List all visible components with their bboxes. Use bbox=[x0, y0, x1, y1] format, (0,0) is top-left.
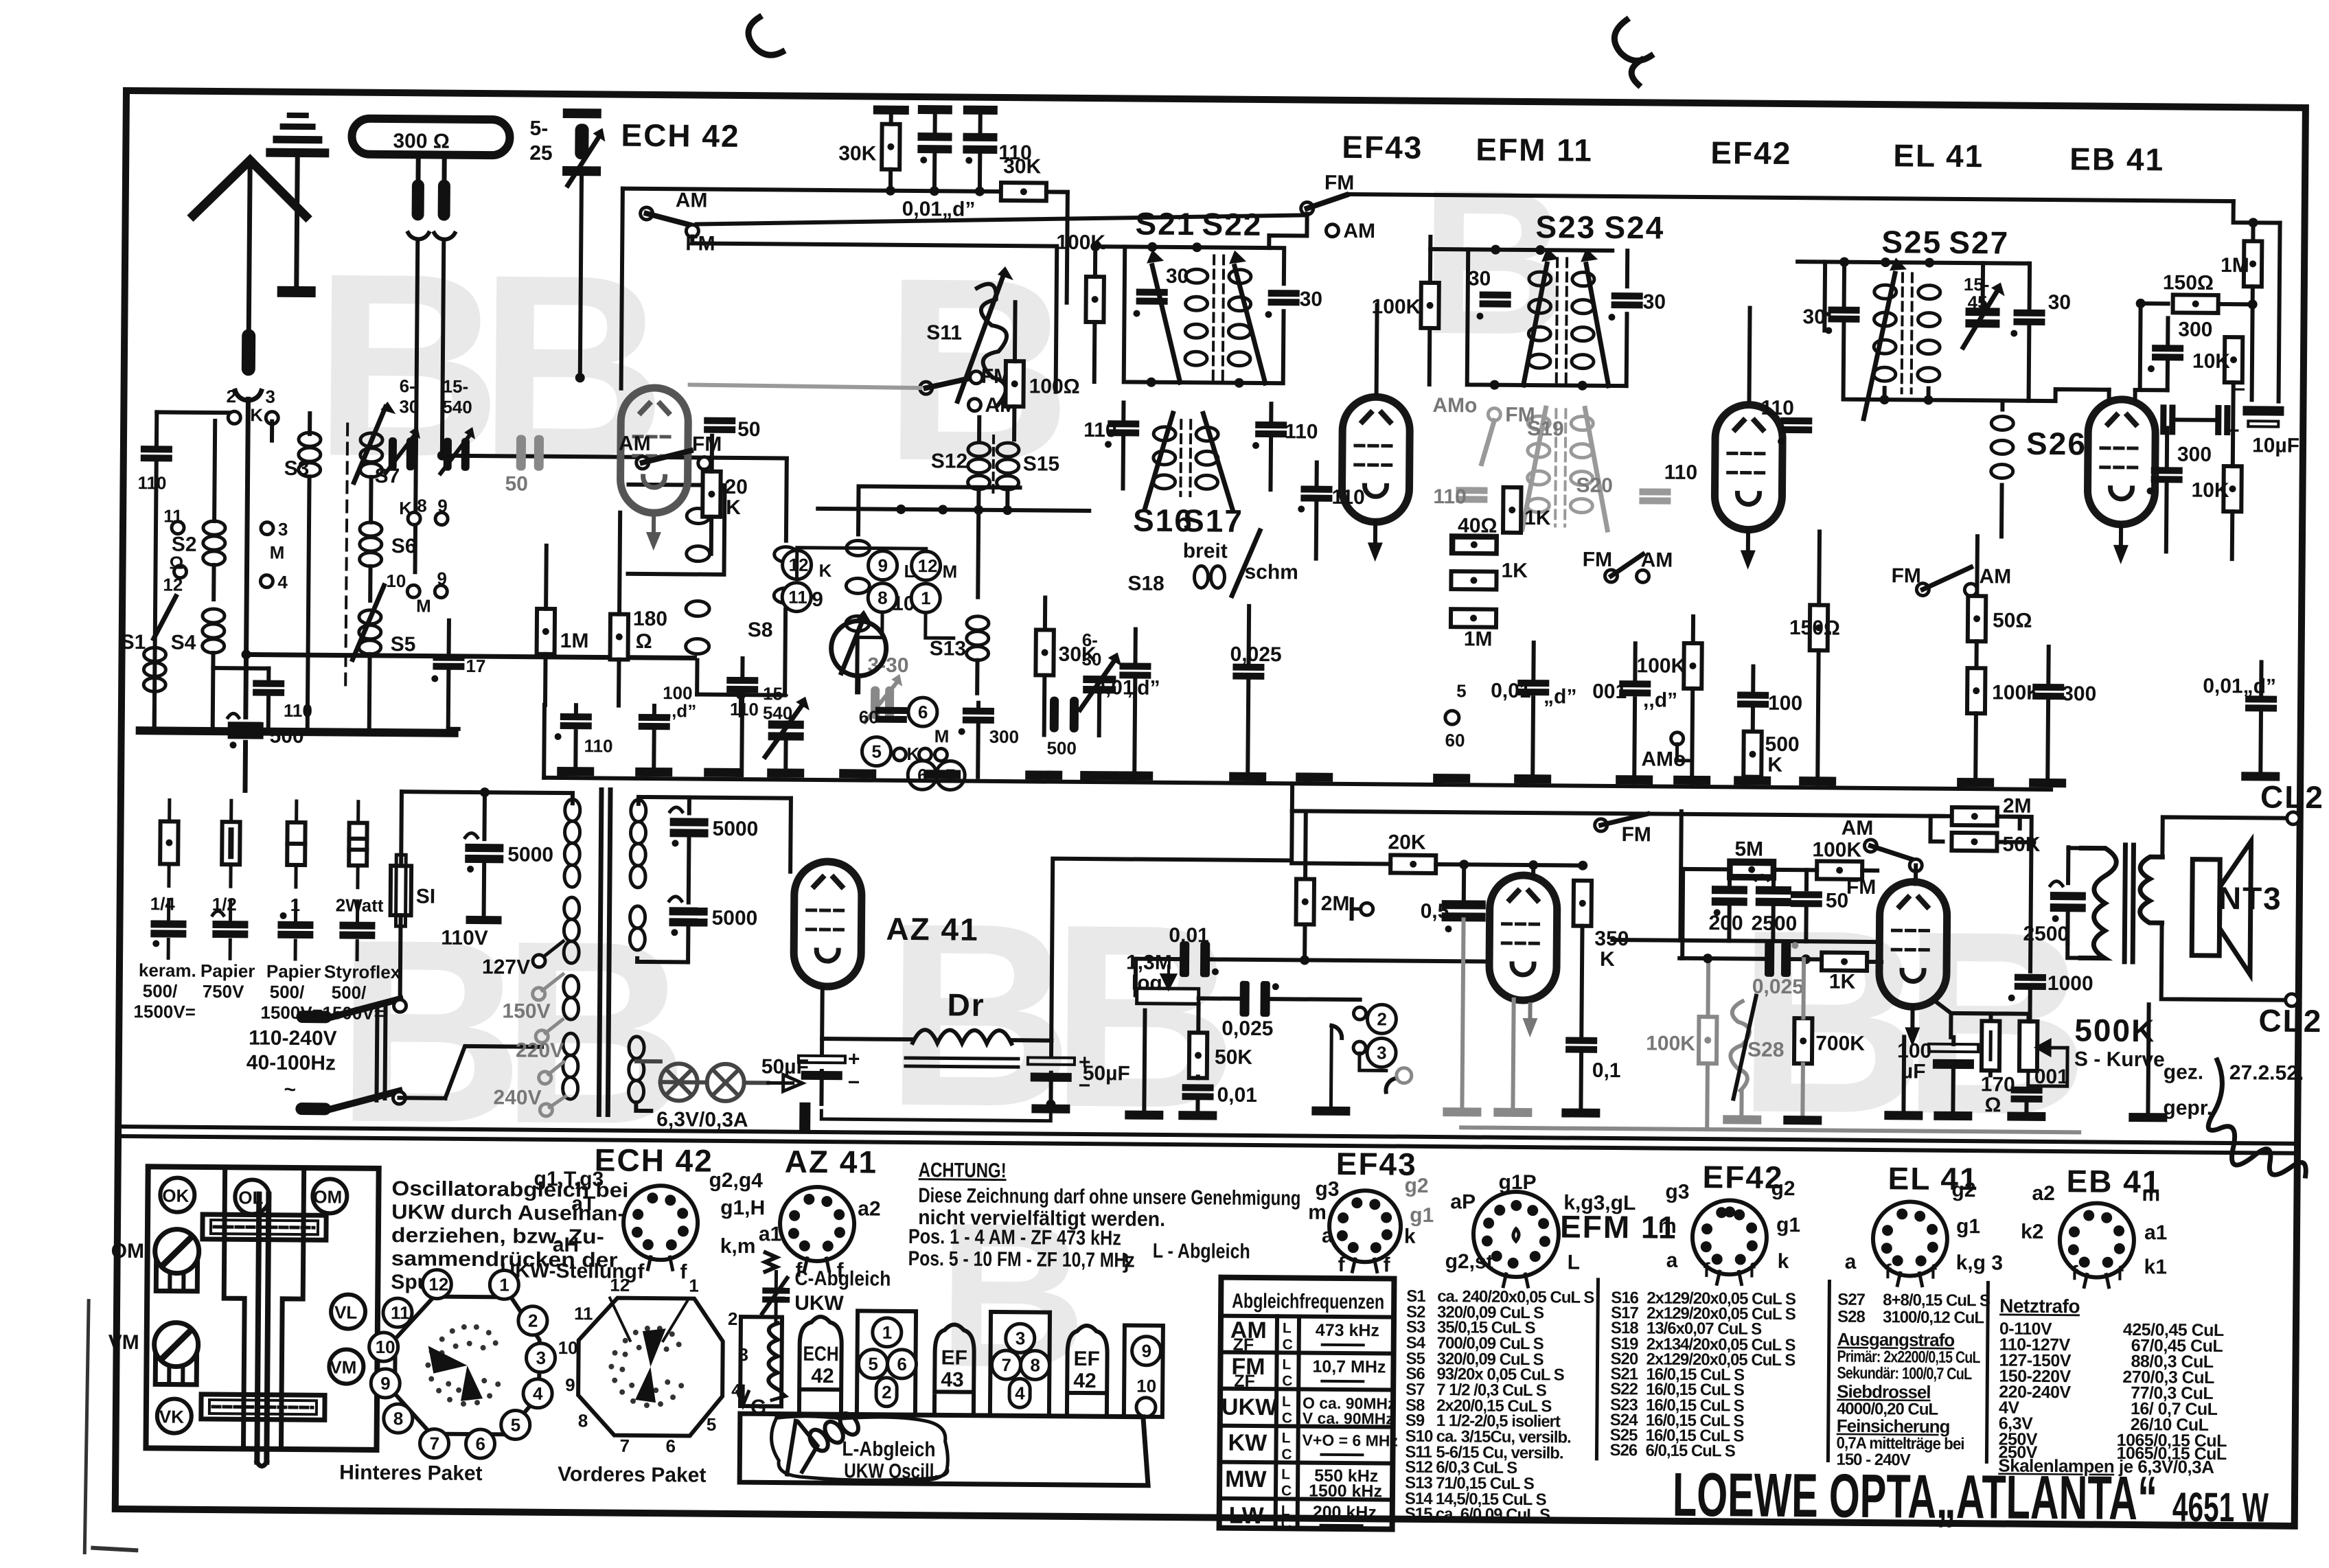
wire bus L1 bbox=[622, 189, 1068, 303]
capacitor 110 (input) bbox=[141, 446, 172, 461]
cap 110 left of EF43 bbox=[1300, 485, 1332, 501]
node bus joins bbox=[886, 186, 895, 196]
capacitor 110 bbox=[560, 713, 592, 729]
svg-text:473 kHz: 473 kHz bbox=[1316, 1321, 1379, 1341]
svg-text:17: 17 bbox=[466, 656, 485, 676]
svg-text:S27: S27 bbox=[1949, 224, 2009, 261]
capacitor 110 (S4 bottom) bbox=[253, 680, 284, 695]
svg-text:10K: 10K bbox=[2192, 350, 2231, 373]
circled 6 7 row bottom bbox=[908, 697, 937, 726]
svg-text:11: 11 bbox=[163, 505, 183, 526]
svg-text:C: C bbox=[1281, 1446, 1292, 1462]
svg-text:220V: 220V bbox=[516, 1039, 564, 1062]
tube EF42 bbox=[1714, 404, 1782, 530]
Abgleichfrequenzen table bbox=[1219, 1278, 1395, 1530]
svg-text:a1: a1 bbox=[759, 1223, 782, 1245]
svg-text:30: 30 bbox=[399, 396, 419, 417]
svg-text:S13: S13 bbox=[930, 637, 967, 660]
power transformer primary bbox=[562, 799, 580, 1099]
svg-text:50Ω: 50Ω bbox=[1993, 609, 2032, 632]
svg-text:f: f bbox=[637, 1260, 645, 1283]
resistor 350K bbox=[1574, 881, 1592, 926]
svg-text:200: 200 bbox=[1708, 912, 1743, 934]
svg-text:−: − bbox=[848, 1071, 860, 1094]
output transformer bbox=[2080, 844, 2162, 962]
svg-text:30: 30 bbox=[2048, 291, 2072, 314]
wire from 30K to right bbox=[1046, 190, 1068, 194]
svg-text:3: 3 bbox=[265, 387, 275, 407]
svg-text:0,5: 0,5 bbox=[1421, 900, 1449, 923]
svg-text:f: f bbox=[1383, 1254, 1390, 1276]
svg-text:„d”: „d” bbox=[1127, 676, 1160, 699]
capacitor 100 d bbox=[639, 714, 670, 730]
svg-text:12: 12 bbox=[917, 555, 937, 576]
svg-text:FM: FM bbox=[1505, 404, 1535, 426]
resistor 500K vert bbox=[1743, 732, 1762, 777]
svg-text:Ω: Ω bbox=[169, 553, 183, 573]
legend cap keram bbox=[167, 900, 170, 919]
svg-text:11: 11 bbox=[391, 1302, 410, 1323]
svg-text:60: 60 bbox=[1445, 730, 1465, 750]
svg-text:12: 12 bbox=[610, 1275, 630, 1295]
svg-text:S8: S8 bbox=[748, 619, 773, 641]
resistor 180 ohm bbox=[610, 614, 629, 660]
terminal VK bbox=[157, 1398, 192, 1433]
cap 0,01 d bbox=[1119, 662, 1151, 678]
terminals 10 M 9 bbox=[407, 585, 420, 597]
svg-text:10,7 MHz: 10,7 MHz bbox=[1312, 1357, 1386, 1377]
svg-text:S21: S21 bbox=[1135, 206, 1195, 242]
wire AM line to switch2 bbox=[696, 211, 1303, 229]
svg-text:001: 001 bbox=[1592, 680, 1627, 703]
transformer core bbox=[599, 789, 601, 1114]
svg-text:S26: S26 bbox=[1609, 1441, 1638, 1460]
resistor 10K b bbox=[2223, 466, 2242, 511]
S list column 3 bbox=[1836, 1291, 1990, 1471]
svg-text:AM: AM bbox=[1343, 220, 1375, 242]
resistor 150 ohm bbox=[1810, 605, 1828, 650]
pickup contacts 2 3 bbox=[1353, 1007, 1366, 1019]
svg-text:FM: FM bbox=[1583, 549, 1613, 571]
grounds audio row bbox=[1443, 1107, 1481, 1116]
terminal AM mid bbox=[968, 399, 980, 411]
svg-text:2500: 2500 bbox=[2023, 923, 2069, 946]
electrolytic 50uF b bbox=[1028, 1050, 1091, 1097]
B+ riser bbox=[1051, 809, 1292, 1043]
wire antenna down bbox=[243, 654, 249, 717]
antenna symbol bbox=[194, 160, 251, 216]
svg-text:NT3: NT3 bbox=[2218, 880, 2282, 916]
svg-text:4: 4 bbox=[1015, 1383, 1025, 1403]
svg-text:FM: FM bbox=[692, 433, 722, 455]
B+ FM line bbox=[1292, 811, 2020, 816]
cap 50 bbox=[1791, 891, 1822, 907]
svg-text:AM: AM bbox=[1842, 817, 1874, 840]
coil S26 bbox=[1991, 416, 2014, 478]
svg-text:S17: S17 bbox=[1183, 503, 1243, 539]
Netztrafo separator bbox=[1986, 1282, 1988, 1462]
svg-text:k: k bbox=[1778, 1250, 1789, 1273]
resistor 30K (screen) bbox=[882, 124, 900, 170]
svg-text:7: 7 bbox=[429, 1433, 439, 1454]
cap 001 coupling bbox=[1180, 941, 1219, 977]
C-Abgleich trimmer bbox=[766, 1252, 777, 1271]
svg-text:3: 3 bbox=[536, 1348, 546, 1368]
svg-text:12: 12 bbox=[428, 1274, 448, 1295]
wire HT to AZ41 bbox=[689, 797, 791, 871]
svg-text:9: 9 bbox=[437, 496, 448, 516]
svg-text:UKW: UKW bbox=[1221, 1394, 1278, 1421]
svg-text:AM: AM bbox=[1641, 549, 1673, 571]
coil box left bbox=[774, 1302, 777, 1321]
svg-text:„d”: „d” bbox=[1544, 685, 1577, 708]
svg-text:AM: AM bbox=[619, 433, 651, 455]
svg-text:+: + bbox=[848, 1048, 860, 1070]
capacitor 110b bbox=[726, 677, 758, 693]
cap 100 bbox=[1737, 691, 1769, 707]
coil S3 bbox=[299, 433, 321, 476]
svg-text:8: 8 bbox=[417, 495, 427, 516]
svg-text:30K: 30K bbox=[838, 142, 877, 165]
svg-text:S22: S22 bbox=[1202, 206, 1262, 242]
svg-text:S5: S5 bbox=[391, 633, 416, 656]
svg-text:a2: a2 bbox=[858, 1197, 881, 1220]
svg-text:500: 500 bbox=[1765, 733, 1799, 756]
svg-text:L: L bbox=[1282, 1430, 1291, 1446]
coil S12/S15 transformer bbox=[967, 443, 1019, 490]
svg-text:S4: S4 bbox=[171, 632, 196, 654]
resistor 30K vert bbox=[1035, 630, 1054, 675]
cap 500 osc bbox=[1050, 697, 1079, 733]
resistor 100K top bbox=[1817, 861, 1862, 879]
chassis box 3 bbox=[1124, 1325, 1163, 1416]
svg-text:100K: 100K bbox=[1371, 295, 1421, 319]
svg-text:6: 6 bbox=[475, 1433, 485, 1454]
circled pin 9 bbox=[868, 551, 897, 580]
svg-text:g1: g1 bbox=[1410, 1204, 1434, 1227]
heater winding to lamps bbox=[636, 1103, 651, 1111]
wire to transformer top bbox=[402, 792, 569, 793]
svg-text:42: 42 bbox=[1073, 1370, 1097, 1392]
svg-text:2: 2 bbox=[728, 1308, 738, 1329]
ground bar left block bbox=[136, 726, 459, 737]
svg-text:K: K bbox=[1600, 948, 1615, 971]
svg-text:S12: S12 bbox=[931, 450, 968, 472]
chassis box 2 bbox=[990, 1312, 1050, 1416]
svg-text:S6: S6 bbox=[391, 535, 417, 557]
svg-text:K: K bbox=[1767, 754, 1782, 776]
trimmer 15-45 bbox=[1963, 282, 2005, 347]
svg-text:20: 20 bbox=[724, 476, 748, 498]
svg-text:4: 4 bbox=[277, 572, 288, 592]
svg-text:OK: OK bbox=[162, 1185, 189, 1206]
resistor 1M right bbox=[2244, 241, 2262, 286]
electrolytic 50uF a bbox=[799, 1048, 860, 1094]
svg-text:5: 5 bbox=[511, 1414, 521, 1435]
svg-text:1500 kHz: 1500 kHz bbox=[1309, 1481, 1382, 1501]
chassis tube ECH42 bbox=[799, 1317, 842, 1414]
svg-text:FM: FM bbox=[1621, 823, 1651, 846]
tuning gang circle bbox=[831, 621, 886, 676]
svg-text:4651 W: 4651 W bbox=[2172, 1484, 2269, 1530]
resistor 100K EF43 grid bbox=[1421, 283, 1439, 328]
svg-text:20K: 20K bbox=[1388, 831, 1426, 853]
coil S2 bbox=[203, 521, 226, 565]
svg-text:V ca. 90MHz: V ca. 90MHz bbox=[1303, 1409, 1394, 1428]
svg-text:Pos. 5 - 10 FM - ZF 10,7 M: Pos. 5 - 10 FM - ZF 10,7 MHz bbox=[908, 1247, 1135, 1272]
svg-text:f: f bbox=[1884, 1260, 1892, 1283]
svg-text:30: 30 bbox=[1081, 649, 1101, 669]
svg-text:g3: g3 bbox=[1665, 1181, 1689, 1203]
circled pin 1 bbox=[911, 584, 940, 612]
svg-text:150V: 150V bbox=[502, 1000, 550, 1023]
coil S6 bbox=[360, 522, 382, 566]
svg-text:0,01: 0,01 bbox=[1169, 924, 1209, 947]
svg-text:5M: 5M bbox=[1734, 838, 1763, 860]
svg-text:1: 1 bbox=[921, 588, 931, 608]
svg-text:L: L bbox=[1282, 1394, 1291, 1409]
cap 5000 sec b bbox=[687, 838, 691, 902]
svg-text:Papier: Papier bbox=[266, 961, 321, 982]
svg-text:10: 10 bbox=[376, 1337, 395, 1357]
dial lamps bbox=[660, 1063, 744, 1101]
coil S13 bbox=[967, 616, 989, 660]
svg-text:keram.: keram. bbox=[139, 960, 196, 981]
svg-text:100K: 100K bbox=[1646, 1032, 1695, 1055]
svg-text:300: 300 bbox=[989, 726, 1020, 747]
svg-text:C: C bbox=[1281, 1516, 1292, 1532]
node 3 bbox=[266, 412, 278, 424]
svg-text:g2,g4: g2,g4 bbox=[709, 1169, 763, 1192]
electrolytic 10uF bbox=[2227, 378, 2284, 443]
svg-text:VM: VM bbox=[330, 1357, 356, 1377]
antenna plug bbox=[242, 329, 256, 376]
switch FM AM mid bbox=[1605, 570, 1617, 582]
svg-text:S20: S20 bbox=[1576, 474, 1613, 497]
resistor 1M bbox=[537, 609, 555, 654]
dial cord T mechanism bbox=[222, 1167, 245, 1449]
svg-text:5000: 5000 bbox=[712, 818, 758, 841]
svg-text:g2: g2 bbox=[1951, 1179, 1975, 1201]
circled pin 12 bbox=[782, 551, 811, 579]
legend resistor 2 W bbox=[356, 802, 360, 823]
terminal 3 M 4 bbox=[261, 522, 273, 535]
terminal AMo bbox=[1671, 733, 1684, 745]
svg-text:2Watt: 2Watt bbox=[336, 895, 384, 916]
dipole 300 ohm bbox=[352, 119, 509, 156]
svg-text:9: 9 bbox=[380, 1373, 391, 1394]
svg-text:110: 110 bbox=[1433, 485, 1467, 508]
coil S8 bbox=[686, 508, 711, 654]
svg-text:f: f bbox=[680, 1260, 687, 1283]
svg-text:5: 5 bbox=[1456, 680, 1467, 701]
svg-text:50: 50 bbox=[1826, 889, 1849, 912]
svg-text:Netztrafo: Netztrafo bbox=[1999, 1295, 2080, 1317]
svg-text:Pos. 1 - 4 AM - ZF 473 kH: Pos. 1 - 4 AM - ZF 473 kHz bbox=[908, 1225, 1121, 1249]
svg-text:Hinteres Paket: Hinteres Paket bbox=[339, 1461, 483, 1485]
svg-text:CL2: CL2 bbox=[2260, 779, 2324, 815]
svg-text:11: 11 bbox=[788, 587, 807, 608]
S list column 2 bbox=[1609, 1289, 1796, 1461]
svg-text:0,025: 0,025 bbox=[1221, 1017, 1273, 1041]
tube EF42 audio bbox=[1489, 875, 1557, 1001]
wire bus L2 bbox=[691, 236, 1057, 391]
svg-text:AZ 41: AZ 41 bbox=[886, 911, 979, 947]
svg-text:MW: MW bbox=[1225, 1466, 1267, 1492]
svg-text:750V: 750V bbox=[203, 981, 245, 1002]
FM bus corner bbox=[1680, 811, 1681, 941]
legend cap papier500 bbox=[294, 901, 297, 920]
circled pin 8 bbox=[868, 584, 897, 612]
svg-text:S27: S27 bbox=[1837, 1291, 1866, 1309]
svg-text:}: } bbox=[1123, 1250, 1131, 1273]
svg-text:43: 43 bbox=[941, 1368, 964, 1391]
svg-text:B: B bbox=[500, 886, 691, 1179]
ground bars on bus bbox=[557, 767, 2066, 787]
svg-text:S3: S3 bbox=[284, 457, 310, 480]
svg-text:170: 170 bbox=[1981, 1073, 2015, 1096]
svg-text:,,d”: ,,d” bbox=[1643, 689, 1677, 711]
svg-text:6,3V/0,3A: 6,3V/0,3A bbox=[656, 1108, 748, 1131]
svg-text:AZ 41: AZ 41 bbox=[785, 1144, 878, 1180]
svg-text:AM: AM bbox=[1979, 565, 2011, 588]
circled pin 11 bbox=[782, 583, 811, 612]
svg-text:1K: 1K bbox=[1829, 971, 1856, 993]
cathode junction bbox=[1937, 1003, 1951, 1037]
svg-text:aH: aH bbox=[553, 1234, 580, 1256]
svg-text:breit: breit bbox=[1183, 540, 1228, 563]
svg-text:S26: S26 bbox=[2026, 426, 2087, 462]
resistor 30K horizontal bbox=[1001, 183, 1046, 201]
svg-text:K: K bbox=[250, 404, 263, 425]
svg-text:10K: 10K bbox=[2191, 479, 2229, 502]
svg-text:C: C bbox=[1283, 1337, 1293, 1352]
svg-text:k: k bbox=[1404, 1225, 1416, 1248]
capacitor 50 grey bbox=[516, 435, 544, 470]
svg-text:2M: 2M bbox=[2003, 794, 2032, 817]
trimmer 15-540 bbox=[441, 427, 476, 474]
svg-text:10: 10 bbox=[558, 1337, 578, 1358]
trimmer 3-30 (grey) bbox=[865, 673, 903, 722]
cap 0,025 bbox=[1232, 664, 1264, 680]
terminal 11 bbox=[172, 522, 184, 534]
svg-text:OM: OM bbox=[313, 1186, 342, 1207]
screw terminal OL bbox=[235, 1179, 269, 1214]
resistor 40ohm bbox=[1452, 535, 1497, 554]
IF transformer S16/S17 bbox=[1153, 427, 1218, 489]
coil S28 grey bbox=[1730, 1001, 1749, 1090]
svg-text:500: 500 bbox=[1046, 738, 1077, 759]
svg-text:k,g 3: k,g 3 bbox=[1956, 1252, 2004, 1275]
cap 300 bbox=[963, 708, 994, 724]
svg-text:M: M bbox=[270, 542, 285, 563]
svg-text:LOEWE OPTA„ATLANTA“: LOEWE OPTA„ATLANTA“ bbox=[1673, 1461, 2158, 1534]
svg-text:1/4: 1/4 bbox=[150, 893, 176, 914]
svg-text:50K: 50K bbox=[1215, 1046, 1253, 1068]
resistor 100K grey bbox=[1699, 1017, 1717, 1063]
svg-text:g3: g3 bbox=[1315, 1178, 1339, 1201]
terminal VL bbox=[331, 1294, 365, 1328]
resistor 50K bbox=[1189, 1033, 1208, 1078]
svg-text:1: 1 bbox=[882, 1322, 893, 1343]
svg-text:Dr: Dr bbox=[947, 987, 985, 1022]
chassis tube EF43 bbox=[934, 1324, 974, 1415]
numbered circles bbox=[422, 1269, 451, 1298]
svg-text:300 Ω: 300 Ω bbox=[393, 130, 450, 153]
coil S11 with arrow bbox=[976, 284, 1007, 406]
svg-text:S25: S25 bbox=[1881, 224, 1942, 260]
svg-text:SI: SI bbox=[416, 885, 436, 908]
cap 300 lower right bbox=[2151, 467, 2183, 483]
svg-text:S11: S11 bbox=[926, 321, 962, 344]
svg-text:L: L bbox=[1283, 1320, 1292, 1336]
svg-text:500/: 500/ bbox=[143, 980, 178, 1001]
cap 0,1 bbox=[1565, 1037, 1597, 1053]
svg-text:2: 2 bbox=[1377, 1008, 1387, 1029]
svg-text:5000: 5000 bbox=[507, 843, 553, 866]
svg-text:S24: S24 bbox=[1604, 209, 1664, 246]
svg-text:200 kHz: 200 kHz bbox=[1313, 1503, 1377, 1523]
svg-text:110: 110 bbox=[1331, 486, 1365, 509]
svg-text:VL: VL bbox=[334, 1302, 358, 1322]
svg-text:f: f bbox=[2116, 1263, 2124, 1285]
svg-text:ECH: ECH bbox=[803, 1343, 838, 1365]
variable cap 15-540 bbox=[765, 696, 810, 757]
svg-text:8: 8 bbox=[578, 1410, 588, 1431]
svg-text:S15: S15 bbox=[1405, 1505, 1433, 1523]
svg-text:127V: 127V bbox=[482, 956, 530, 979]
svg-text:10: 10 bbox=[1136, 1376, 1156, 1396]
svg-text:g2: g2 bbox=[1771, 1177, 1795, 1200]
svg-text:f: f bbox=[1929, 1261, 1937, 1284]
svg-text:m: m bbox=[1658, 1215, 1677, 1238]
svg-text:,,d”: ,,d” bbox=[667, 700, 697, 721]
svg-text:500/: 500/ bbox=[270, 982, 305, 1002]
svg-text:9: 9 bbox=[1142, 1341, 1152, 1361]
ratio det caps bbox=[2160, 404, 2175, 435]
cap 001d mid bbox=[1619, 680, 1651, 696]
resistor 50 ohm bbox=[1968, 596, 1986, 641]
resistor 1K h bbox=[1451, 571, 1496, 590]
svg-text:K: K bbox=[399, 498, 412, 518]
legend cap papier750 bbox=[229, 900, 232, 919]
svg-text:L-Abgleich: L-Abgleich bbox=[842, 1438, 935, 1461]
svg-text:EFM 11: EFM 11 bbox=[1476, 131, 1593, 168]
coil S5 bbox=[359, 610, 382, 654]
trimmer 5-25 top bbox=[562, 108, 606, 185]
svg-text:2: 2 bbox=[528, 1311, 538, 1331]
svg-text:500/: 500/ bbox=[332, 982, 367, 1002]
resistor 100K lower bbox=[1684, 643, 1702, 689]
svg-text:f: f bbox=[1338, 1254, 1345, 1276]
svg-text:8: 8 bbox=[393, 1408, 404, 1429]
svg-text:g1,T,g3: g1,T,g3 bbox=[534, 1168, 604, 1191]
watermark bbox=[306, 137, 2097, 1418]
svg-text:100K: 100K bbox=[1812, 838, 1861, 862]
cap 300 upper right bbox=[2152, 345, 2183, 360]
tube EF43 bbox=[1342, 397, 1410, 522]
svg-text:AMo: AMo bbox=[1432, 394, 1477, 417]
svg-text:g2,st: g2,st bbox=[1445, 1250, 1493, 1273]
screw terminal OK bbox=[160, 1177, 194, 1212]
tube EB41 bbox=[2087, 399, 2155, 524]
svg-text:30: 30 bbox=[1468, 267, 1491, 290]
svg-text:g1: g1 bbox=[1956, 1215, 1980, 1238]
wire bus y733 bbox=[818, 509, 1089, 511]
svg-text:001: 001 bbox=[2034, 1065, 2069, 1088]
cap 0,01 bbox=[1182, 1084, 1214, 1100]
svg-text:3100/0,12 CuL: 3100/0,12 CuL bbox=[1883, 1308, 1984, 1327]
